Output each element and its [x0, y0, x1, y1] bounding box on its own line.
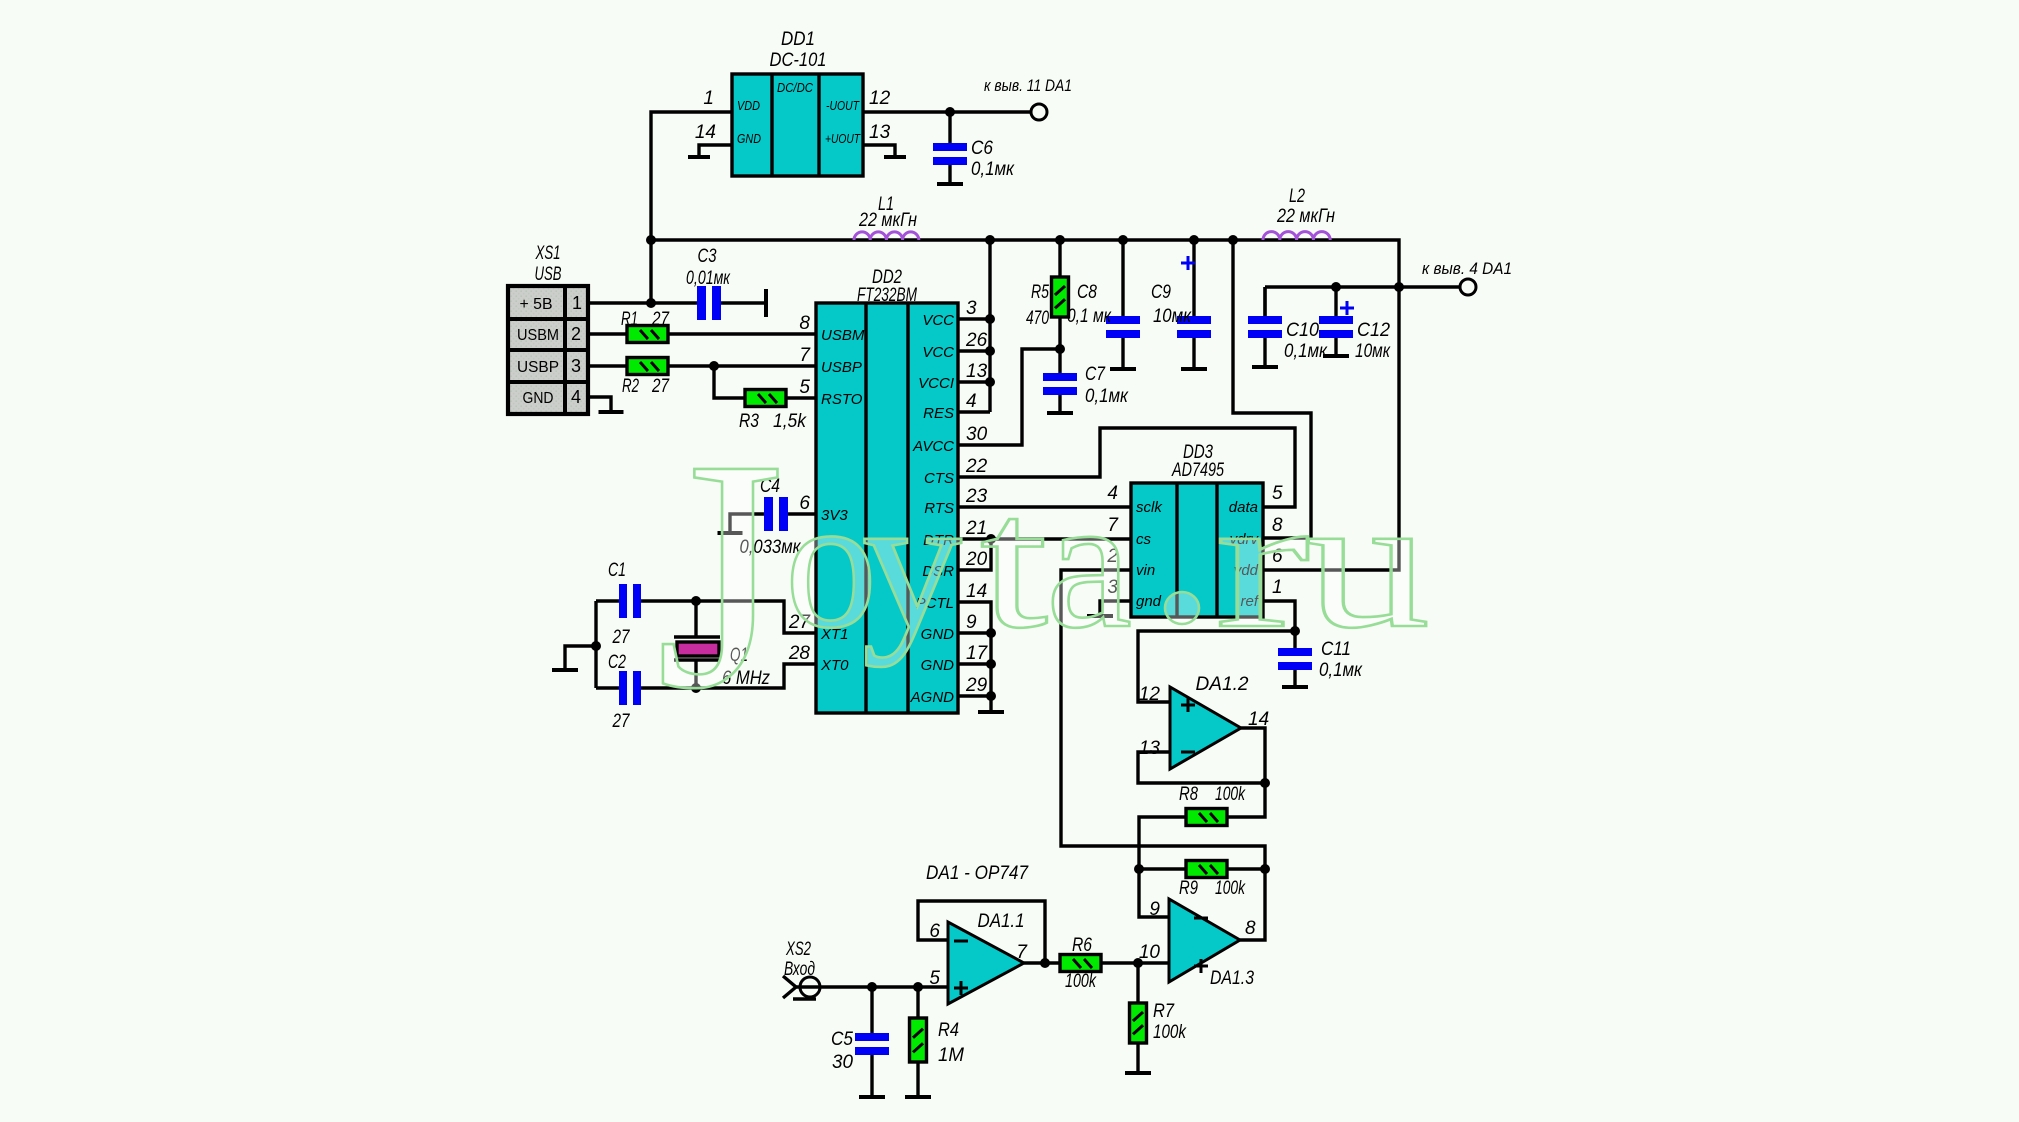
- svg-text:-UOUT: -UOUT: [826, 98, 860, 113]
- svg-text:3: 3: [966, 298, 977, 319]
- ground crystal node: [552, 646, 596, 670]
- capacitor C2 27: [596, 652, 641, 732]
- wire DA1.2 output pin14: [1227, 728, 1265, 817]
- svg-text:USBP: USBP: [821, 359, 862, 376]
- svg-text:22 мкГн: 22 мкГн: [858, 210, 917, 231]
- capacitor C7 0,1uF: [1043, 349, 1129, 413]
- capacitor C9 10uF electrolytic: [1151, 240, 1211, 369]
- svg-text:FT232BM: FT232BM: [857, 285, 917, 306]
- svg-text:14: 14: [695, 122, 716, 143]
- junction ref/C11: [1290, 626, 1300, 636]
- junction R4: [913, 982, 923, 992]
- IC DD2 FT232BM: [788, 267, 989, 713]
- junction R9 left: [1134, 864, 1144, 874]
- ground DD3 gnd pin 3: [1087, 601, 1131, 616]
- svg-text:4: 4: [571, 387, 581, 407]
- svg-text:R6: R6: [1072, 935, 1092, 956]
- wire XS1 pin1 +5B: [588, 301, 697, 304]
- junction GND17: [986, 659, 996, 669]
- svg-text:2: 2: [571, 324, 581, 344]
- wire CTS pin 22 to DD3 data: [958, 428, 1295, 507]
- svg-text:22 мкГн: 22 мкГн: [1276, 206, 1335, 227]
- terminal к выв. 11 DA1: [984, 76, 1072, 120]
- wire ref pin 1 to C11 and DA1.2 +input: [1138, 601, 1295, 702]
- terminal к выв. 4 DA1: [1422, 259, 1512, 295]
- svg-text:R7: R7: [1153, 1001, 1175, 1022]
- wire PCTL pin14 / GND bus: [958, 602, 991, 712]
- svg-text:1: 1: [703, 88, 714, 109]
- svg-text:0,01мк: 0,01мк: [686, 268, 731, 289]
- svg-text:DD1: DD1: [781, 29, 815, 50]
- wire DA1.3 +input pin10: [1138, 961, 1169, 964]
- svg-text:VCCI: VCCI: [918, 375, 954, 392]
- ground DD1 pin 13 (+UOUT): [863, 145, 906, 157]
- wire DD1 -UOUT pin 12 to terminal: [863, 110, 1031, 113]
- svg-text:C5: C5: [831, 1029, 853, 1050]
- svg-text:27: 27: [651, 309, 670, 330]
- junction C5: [867, 982, 877, 992]
- svg-text:DA1 - OP747: DA1 - OP747: [926, 863, 1029, 884]
- svg-text:13: 13: [1139, 738, 1161, 759]
- junction XT1 node: [691, 596, 701, 606]
- svg-text:L2: L2: [1289, 186, 1305, 207]
- junction C6 top: [945, 107, 955, 117]
- resistor R6 100k: [1060, 935, 1138, 992]
- svg-text:30: 30: [966, 424, 988, 445]
- svg-text:8: 8: [1245, 918, 1256, 939]
- junction GND9: [986, 628, 996, 638]
- svg-text:26: 26: [965, 330, 988, 351]
- op-amp DA1.2: [1139, 674, 1269, 769]
- wire vdrv pin 8 riser to rail: [1233, 240, 1311, 538]
- wire R3 branch to RSTO: [714, 366, 816, 398]
- svg-text:к выв. 4 DA1: к выв. 4 DA1: [1422, 259, 1512, 278]
- svg-text:C10: C10: [1286, 320, 1319, 341]
- svg-text:470: 470: [1026, 308, 1049, 329]
- resistor R8 100k: [1179, 784, 1246, 826]
- wire DSR pin 20: [958, 539, 991, 570]
- capacitor C10 0,1uF: [1248, 287, 1328, 367]
- svg-text:13: 13: [966, 361, 988, 382]
- svg-text:t: t: [980, 458, 1048, 668]
- svg-text:C12: C12: [1357, 320, 1390, 341]
- svg-text:8: 8: [799, 313, 810, 334]
- wire DA1.1 feedback pin6: [918, 901, 1045, 963]
- svg-text:R8: R8: [1179, 784, 1198, 805]
- crystal Q1 6 MHz: [674, 601, 770, 689]
- wire RTS pin 23 to DD3 sclk: [958, 505, 1131, 508]
- svg-text:C7: C7: [1085, 364, 1106, 385]
- capacitor C12 10uF electrolytic: [1319, 287, 1391, 362]
- label DA1 OP747: [926, 863, 1029, 884]
- resistor R1 27: [621, 309, 670, 343]
- svg-text:DA1.2: DA1.2: [1196, 674, 1249, 695]
- svg-text:C3: C3: [698, 246, 717, 267]
- svg-text:7: 7: [799, 345, 811, 366]
- svg-text:5: 5: [799, 377, 810, 398]
- junction rail VCC riser: [985, 235, 995, 245]
- op-amp DA1.1: [929, 911, 1028, 1004]
- svg-text:R4: R4: [938, 1020, 959, 1041]
- svg-text:29: 29: [965, 675, 988, 696]
- svg-text:C8: C8: [1077, 282, 1097, 303]
- IC DD1 DC-101: [695, 29, 891, 176]
- junction DA1.1 output/feedback: [1040, 958, 1050, 968]
- svg-text:USB: USB: [535, 264, 562, 285]
- resistor R4 1M: [905, 987, 964, 1097]
- svg-text:27: 27: [612, 711, 631, 732]
- junction R5/C7/AVCC: [1055, 344, 1065, 354]
- capacitor C3 0,01uF: [686, 246, 766, 320]
- svg-text:+ 5B: + 5B: [520, 296, 553, 313]
- svg-text:C6: C6: [971, 138, 993, 159]
- svg-text:USBM: USBM: [821, 327, 865, 344]
- svg-text:10: 10: [1139, 942, 1161, 963]
- junction VCC26: [985, 346, 995, 356]
- capacitor C8 0,1uF: [1067, 240, 1140, 369]
- wire +5V main rail with risers: [651, 240, 1399, 570]
- ground C4: [718, 514, 765, 533]
- svg-text:0,1мк: 0,1мк: [1085, 386, 1129, 407]
- wire input line: [796, 985, 948, 988]
- svg-text:C2: C2: [608, 652, 626, 673]
- svg-text:DA1.1: DA1.1: [978, 911, 1025, 932]
- wire XS1 pin2 USBM: [588, 332, 816, 335]
- ground DD2 GND bus: [978, 710, 1004, 714]
- capacitor C4 0,033uF: [740, 476, 802, 558]
- svg-text:1: 1: [572, 293, 582, 313]
- svg-text:+UOUT: +UOUT: [825, 131, 861, 146]
- junction rail at DD1 riser: [646, 235, 656, 245]
- svg-text:USBM: USBM: [517, 327, 559, 344]
- wire DA1.1 output pin7: [1024, 961, 1060, 964]
- junction +5B riser: [646, 298, 656, 308]
- wire DD3 vin pin 2 from DA1.3 output: [1061, 570, 1265, 940]
- wire XT1 node: [641, 601, 816, 633]
- resistor R9 100k: [1139, 861, 1265, 900]
- svg-text:USBP: USBP: [517, 359, 559, 376]
- junction L2 riser: [1394, 282, 1404, 292]
- wire VCC pins 3/26/13/RES 4 riser: [958, 240, 990, 412]
- IC DD3 AD7495: [1106, 442, 1283, 617]
- svg-text:0,1мк: 0,1мк: [971, 159, 1015, 180]
- junction C12: [1331, 282, 1341, 292]
- wire output node к выв. 4 DA1: [1265, 285, 1460, 288]
- svg-text:100k: 100k: [1215, 784, 1246, 805]
- svg-text:XS2: XS2: [785, 939, 811, 960]
- svg-text:9: 9: [1149, 899, 1160, 920]
- svg-text:DC/DC: DC/DC: [777, 80, 814, 95]
- wire DD2 3V3 pin 6: [788, 512, 816, 515]
- svg-text:gnd: gnd: [1136, 593, 1162, 610]
- junction rail R5: [1055, 235, 1065, 245]
- svg-text:a: a: [1046, 458, 1132, 668]
- op-amp DA1.3: [1139, 899, 1256, 989]
- capacitor C11 0,1uF: [1278, 631, 1363, 687]
- svg-text:u: u: [1305, 458, 1430, 668]
- svg-text:XS1: XS1: [535, 243, 561, 264]
- capacitor C6 0,1uF: [933, 112, 1015, 184]
- junction DTR/DSR: [986, 534, 996, 544]
- ground DD1 pin 14: [688, 145, 732, 157]
- svg-text:12: 12: [869, 88, 891, 109]
- svg-text:sclk: sclk: [1136, 499, 1163, 516]
- svg-text:J: J: [656, 392, 784, 757]
- wire XT0 node: [641, 664, 816, 688]
- junction R9 right / DA1.3 output: [1260, 864, 1270, 874]
- svg-text:к выв. 11 DA1: к выв. 11 DA1: [984, 76, 1072, 95]
- svg-text:VCC: VCC: [922, 312, 954, 329]
- svg-text:DA1.3: DA1.3: [1210, 968, 1254, 989]
- junction rail C9: [1189, 235, 1199, 245]
- resistor R3 1,5k: [739, 390, 807, 433]
- svg-text:0,1мк: 0,1мк: [1284, 341, 1328, 362]
- svg-text:R5: R5: [1031, 282, 1049, 303]
- connector XS2 Вход: [783, 939, 820, 999]
- svg-text:R1: R1: [621, 309, 638, 330]
- wire DA1.2 -input pin13 feedback: [1138, 752, 1265, 783]
- svg-text:7: 7: [1016, 942, 1028, 963]
- resistor R2 27: [622, 358, 670, 398]
- svg-text:Вход: Вход: [784, 959, 815, 980]
- svg-text:C9: C9: [1151, 282, 1171, 303]
- junction rail C8: [1118, 235, 1128, 245]
- svg-text:100k: 100k: [1065, 971, 1097, 992]
- svg-text:0,1 мк: 0,1 мк: [1067, 306, 1112, 327]
- inductor L2 22uH: [1263, 186, 1335, 240]
- resistor R5 470: [1026, 240, 1069, 349]
- svg-text:R2: R2: [622, 376, 639, 397]
- svg-text:30: 30: [832, 1052, 853, 1073]
- capacitor C1 27: [596, 560, 641, 648]
- svg-text:RSTO: RSTO: [821, 391, 863, 408]
- junction AGND29: [986, 691, 996, 701]
- junction XT0 node: [691, 683, 701, 693]
- svg-text:GND: GND: [523, 390, 554, 407]
- inductor L1 22uH: [854, 194, 919, 240]
- svg-text:vin: vin: [1136, 562, 1155, 579]
- svg-text:y: y: [862, 458, 962, 668]
- svg-text:DC-101: DC-101: [770, 50, 827, 71]
- svg-text:12: 12: [1139, 684, 1161, 705]
- svg-text:AVCC: AVCC: [912, 438, 954, 455]
- wire AVCC pin 30: [958, 349, 1060, 445]
- svg-text:100k: 100k: [1215, 878, 1246, 899]
- svg-text:10мк: 10мк: [1355, 341, 1391, 362]
- wire DTR pin 21 to DD3 cs: [958, 537, 1131, 540]
- svg-text:C1: C1: [608, 560, 626, 581]
- junction R6/R7/pin10: [1133, 958, 1143, 968]
- svg-text:AGND: AGND: [910, 689, 955, 706]
- svg-text:VCC: VCC: [922, 344, 954, 361]
- svg-text:GND: GND: [737, 131, 761, 146]
- svg-text:cs: cs: [1136, 531, 1152, 548]
- svg-text:9: 9: [966, 612, 977, 633]
- junction VCC3: [985, 314, 995, 324]
- wire XS1 pin3 USBP: [588, 364, 816, 367]
- junction crystal ground: [591, 641, 601, 651]
- wire DD1 VDD pin 1: [651, 112, 732, 303]
- junction rail vdrv riser: [1228, 235, 1238, 245]
- svg-text:3: 3: [571, 356, 581, 376]
- svg-text:r: r: [1215, 458, 1310, 668]
- ground XS1 pin 4: [588, 397, 624, 412]
- svg-text:100k: 100k: [1153, 1022, 1187, 1043]
- wire C1-C2 left vertical: [594, 601, 597, 688]
- svg-text:R9: R9: [1179, 878, 1198, 899]
- wire R8 left to DA1.3 -input: [1139, 817, 1186, 917]
- svg-text:4: 4: [966, 391, 977, 412]
- capacitor C5 30: [831, 987, 889, 1097]
- svg-text:VDD: VDD: [737, 98, 760, 113]
- junction USBP/R3: [709, 361, 719, 371]
- junction VCCI13: [985, 377, 995, 387]
- svg-text:1M: 1M: [938, 1045, 964, 1066]
- svg-text:13: 13: [869, 122, 891, 143]
- watermark Joyta.ru: [656, 392, 1430, 757]
- svg-text:27: 27: [612, 627, 631, 648]
- svg-text:10мк: 10мк: [1153, 306, 1192, 327]
- junction DA1.2 feedback: [1260, 778, 1270, 788]
- svg-text:RES: RES: [923, 405, 954, 422]
- resistor R7 100k: [1125, 963, 1187, 1073]
